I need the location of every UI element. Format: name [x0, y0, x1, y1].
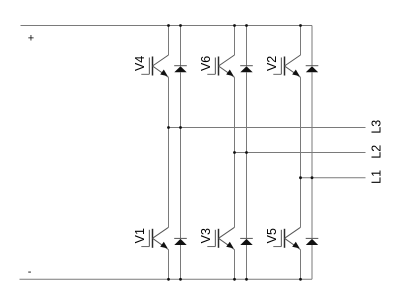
svg-text:+: + [28, 33, 34, 45]
antiparallel diode of V2 [306, 66, 319, 73]
wire: upper diode anode down to lower diode cathode, leg 1 [180, 72, 182, 238]
wire: lower diode anode to bottom rail, leg 2 [246, 245, 248, 279]
wire: top rail to V4 collector [168, 26, 170, 56]
junction at leg midpoint x=234.5 [233, 151, 236, 154]
junction at diode branch midpoint x=180.5 [179, 126, 182, 129]
wire: V6 emitter down to V3 collector (phase leg midpoint) [234, 77, 236, 227]
wire: lower diode anode to bottom rail, leg 1 [180, 245, 182, 279]
DC- rail (bottom bus) [20, 278, 313, 280]
svg-text:V4: V4 [133, 56, 147, 71]
transistor V4 (IGBT) [133, 55, 169, 77]
junction on bottom rail at x=246.5 [245, 278, 248, 281]
junction on top rail at x=168.5 [167, 24, 170, 27]
junction on top rail at x=246.5 [245, 24, 248, 27]
junction on bottom rail at x=168.5 [167, 278, 170, 281]
transistor V2 (IGBT) [265, 55, 301, 77]
corner: bottom rail up to leg-3 diode branch [311, 245, 313, 279]
wire: top rail to V2 collector [300, 26, 302, 56]
antiparallel diode of V5 [306, 238, 319, 245]
svg-text:L2: L2 [369, 145, 383, 159]
junction at leg midpoint x=168.5 [167, 126, 170, 129]
transistor V6 (IGBT) [199, 55, 235, 77]
wire: phase output L2 [235, 152, 366, 154]
svg-text:V3: V3 [199, 228, 213, 243]
wire: V2 emitter down to V5 collector (phase leg midpoint) [300, 77, 302, 227]
antiparallel diode of V6 [240, 66, 253, 73]
svg-text:V5: V5 [265, 228, 279, 243]
svg-text:V6: V6 [199, 56, 213, 71]
junction on bottom rail at x=180.5 [179, 278, 182, 281]
junction on bottom rail at x=234.5 [233, 278, 236, 281]
corner: top rail down to leg-3 diode branch [311, 26, 313, 66]
junction on top rail at x=300.5 [299, 24, 302, 27]
wire: V3 emitter to bottom rail [234, 250, 236, 280]
wire: top rail to V6 collector [234, 26, 236, 56]
svg-text:L1: L1 [369, 170, 383, 184]
svg-text:V2: V2 [265, 56, 279, 71]
wire: upper diode anode down to lower diode cathode, leg 3 [311, 72, 313, 238]
junction on top rail at x=180.5 [179, 24, 182, 27]
antiparallel diode of V1 [174, 238, 187, 245]
transistor V1 (IGBT) [133, 227, 169, 249]
svg-text:L3: L3 [369, 120, 383, 134]
antiparallel diode of V3 [240, 238, 253, 245]
junction on bottom rail at x=300.5 [299, 278, 302, 281]
wire: V1 emitter to bottom rail [168, 250, 170, 280]
junction at diode branch midpoint x=246.5 [245, 151, 248, 154]
wire: phase output L1 [301, 177, 366, 179]
wire: top rail to upper diode cathode, leg 1 [180, 26, 182, 66]
transistor V3 (IGBT) [199, 227, 235, 249]
transistor V5 (IGBT) [265, 227, 301, 249]
wire: upper diode anode down to lower diode cathode, leg 2 [246, 72, 248, 238]
junction at diode branch midpoint x=312 [311, 176, 314, 179]
junction on top rail at x=234.5 [233, 24, 236, 27]
wire: V4 emitter down to V1 collector (phase leg midpoint) [168, 77, 170, 227]
svg-text:V1: V1 [133, 228, 147, 243]
wire: top rail to upper diode cathode, leg 2 [246, 26, 248, 66]
wire: V5 emitter to bottom rail [300, 250, 302, 280]
svg-text:-: - [28, 266, 32, 278]
DC+ rail (top bus) [21, 25, 313, 27]
junction at leg midpoint x=300.5 [299, 176, 302, 179]
antiparallel diode of V4 [174, 66, 187, 73]
wire: phase output L3 [169, 127, 366, 129]
